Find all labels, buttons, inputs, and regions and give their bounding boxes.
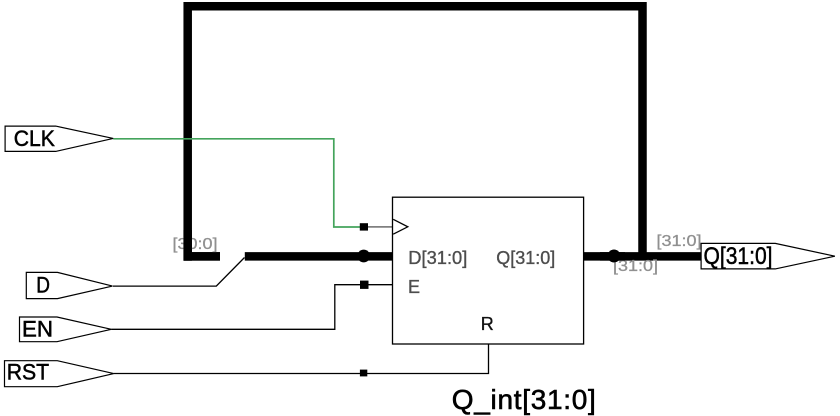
wire: Q output bus (584, 252, 702, 261)
wire: clock pin stub (gray) (368, 226, 393, 228)
svg-text:RST: RST (7, 360, 49, 385)
svg-text:CLK: CLK (14, 126, 55, 151)
svg-text:Q[31:0]: Q[31:0] (496, 248, 555, 268)
pin square: E (360, 281, 369, 289)
wire: E pin stub into register (369, 284, 393, 286)
node junction dot on D bus (357, 250, 370, 263)
input tag RST (5, 361, 114, 387)
svg-text:D[31:0]: D[31:0] (408, 248, 467, 268)
clock triangle wedge (393, 219, 408, 234)
node junction dot on Q bus (608, 250, 621, 263)
wire: bus overdraw covering net label [30:0] (183, 230, 192, 261)
wire: RST lead (114, 344, 489, 374)
svg-text:[30:0]: [30:0] (173, 236, 218, 253)
input tag D (26, 272, 112, 298)
wire: bus stub left bottom (184, 252, 221, 261)
wire: D bus segment into register (245, 252, 396, 261)
svg-text:Q[31:0]: Q[31:0] (704, 243, 773, 270)
svg-text:R: R (481, 314, 494, 334)
wire: D tag lead (113, 258, 245, 287)
wire: feedback bus Q_int loop (left vertical, top, right vertical) (188, 6, 643, 260)
input tag CLK (5, 126, 113, 151)
svg-text:Q_int[31:0]: Q_int[31:0] (452, 384, 596, 415)
input tag EN (20, 317, 112, 342)
svg-text:[31:0]: [31:0] (657, 233, 702, 250)
register U1 Q_int body (393, 197, 584, 344)
svg-text:D: D (36, 272, 50, 297)
svg-text:EN: EN (22, 317, 53, 342)
wire: EN lead (111, 285, 360, 330)
pin square: R (360, 370, 367, 377)
output tag Q[31:0] (701, 243, 835, 269)
wire: CLK net (green) (113, 139, 360, 227)
pin square: clock (360, 223, 368, 230)
svg-text:E: E (408, 277, 420, 297)
node junction dot overdraw on Q bus (600, 252, 625, 261)
